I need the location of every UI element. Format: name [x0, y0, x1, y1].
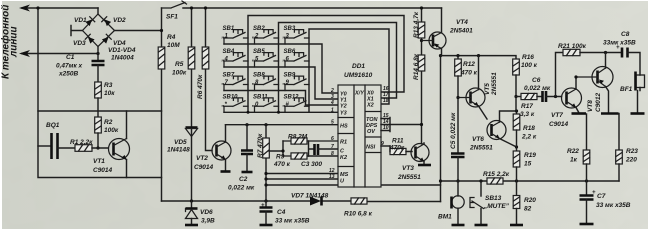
- wire: R13/R14 column: [421, 8, 423, 125]
- svg-text:X/Y: X/Y: [354, 91, 365, 97]
- svg-text:C9014: C9014: [93, 167, 113, 174]
- svg-text:C9014: C9014: [194, 164, 214, 171]
- resistor R5 100k: [188, 47, 195, 69]
- svg-text:15: 15: [524, 161, 532, 168]
- svg-text:10к: 10к: [104, 90, 115, 97]
- wire: column 2 bus to X1: [279, 23, 397, 113]
- wire: R5 column: [191, 8, 193, 201]
- svg-text:VD3: VD3: [73, 40, 86, 47]
- transistor VT3 2N5551: [397, 125, 431, 182]
- resistor R4 10M: [158, 47, 165, 69]
- resistor R7 470k: [265, 125, 267, 201]
- svg-text:18: 18: [383, 98, 389, 104]
- svg-text:VD5: VD5: [174, 139, 187, 146]
- button SB9: [285, 76, 309, 84]
- svg-text:R18: R18: [523, 125, 535, 132]
- wire: VT2 collector rail to IC pin5: [226, 124, 339, 126]
- svg-text:VT8: VT8: [587, 100, 594, 112]
- svg-text:SB2: SB2: [253, 26, 265, 32]
- switch SF1: [162, 1, 187, 8]
- resistor R9 470k: [283, 155, 309, 157]
- svg-text:R4: R4: [167, 34, 176, 41]
- svg-text:VD1-VD4: VD1-VD4: [108, 47, 136, 54]
- svg-text:6: 6: [331, 136, 334, 142]
- svg-text:VT2: VT2: [196, 155, 208, 162]
- svg-text:C7: C7: [597, 193, 606, 200]
- wire: TON/DPS/OV pins to VT3 collector line: [381, 118, 422, 132]
- svg-text:100к: 100к: [172, 70, 187, 77]
- resistor R6 470k: [202, 47, 209, 69]
- wire: lower link to VT4 emitter column: [266, 184, 441, 186]
- svg-text:VT4: VT4: [456, 19, 468, 26]
- svg-text:BQ1: BQ1: [46, 122, 60, 129]
- svg-text:2N5551: 2N5551: [469, 145, 493, 152]
- wire: left drop from top line (box left edge feed): [37, 8, 39, 111]
- wire: main left column SF1/R4 down to bottom bus: [161, 8, 163, 201]
- svg-text:R1: R1: [340, 140, 347, 146]
- wire: bottom bus: [162, 200, 311, 202]
- svg-text:R1 2,2к: R1 2,2к: [70, 139, 93, 146]
- wire: MS pin12 line: [266, 173, 338, 175]
- resistor R3 10k: [95, 82, 102, 98]
- button SB3: [285, 30, 309, 38]
- svg-text:VT5: VT5: [484, 83, 491, 95]
- svg-text:C6: C6: [532, 77, 541, 84]
- svg-text:R2: R2: [104, 119, 113, 126]
- wire: row 2 to pin Y1: [224, 67, 338, 99]
- svg-text:R11: R11: [392, 138, 404, 145]
- button SB1: [224, 30, 248, 38]
- svg-text:82: 82: [524, 206, 532, 213]
- zener VD6 3.9V: [191, 201, 193, 208]
- svg-text:VT7: VT7: [551, 112, 563, 119]
- resistor R14 6.8k: [418, 55, 425, 71]
- wire: VT4 emitter down-column: [441, 49, 442, 202]
- svg-text:„6: „6: [282, 57, 290, 63]
- capacitor C8 33uF 35V: [622, 48, 628, 58]
- speaker BF1: [620, 72, 645, 114]
- capacitor C1 0.47uF 250V: [92, 61, 105, 65]
- diode VD2: [102, 17, 112, 27]
- svg-text:„MUTE”: „MUTE”: [483, 203, 510, 210]
- switch SB13 MUTE: [470, 181, 510, 225]
- svg-text:„8: „8: [251, 80, 259, 86]
- svg-text:SB11: SB11: [253, 95, 268, 101]
- resistor R11 470k: [390, 148, 406, 154]
- wire: column 1 bus to X0: [248, 16, 404, 113]
- diode VD5 1N4148: [186, 126, 198, 129]
- wire: bridge top corner to top line: [97, 8, 99, 14]
- svg-text:„*: „*: [221, 102, 228, 108]
- svg-text:100 к: 100 к: [521, 62, 538, 69]
- svg-text:C8: C8: [621, 31, 630, 38]
- transistor VT7 C9014: [549, 77, 586, 128]
- svg-text:C9012: C9012: [595, 92, 602, 112]
- transistor VT6 2N5551: [469, 111, 517, 152]
- svg-text:R22: R22: [567, 148, 579, 155]
- svg-text:C1: C1: [66, 54, 75, 61]
- svg-text:R9: R9: [276, 154, 285, 161]
- wire: output rail BM1/R15: [441, 180, 620, 182]
- svg-text:10М: 10М: [167, 42, 180, 49]
- svg-text:„2: „2: [251, 34, 259, 40]
- wire: NSI pin to R11: [381, 145, 390, 147]
- capacitor C4 33uF 35V: [265, 201, 267, 207]
- transistor VT2 C9014: [194, 125, 231, 172]
- button SB4: [224, 53, 248, 61]
- svg-text:Y3: Y3: [340, 111, 347, 117]
- svg-text:2N5551: 2N5551: [397, 174, 421, 181]
- svg-text:„#: „#: [282, 102, 290, 108]
- diode VD3: [85, 34, 95, 44]
- svg-text:+: +: [261, 203, 265, 209]
- svg-text:VT1: VT1: [93, 158, 105, 165]
- svg-text:1: 1: [331, 108, 334, 114]
- svg-text:1N4004: 1N4004: [111, 55, 134, 62]
- transistor VT5 2N5551: [458, 56, 498, 119]
- microphone BM1: [438, 181, 465, 225]
- resistor R15 2.2k: [487, 178, 503, 184]
- svg-text:3,9В: 3,9В: [201, 218, 215, 225]
- svg-text:470 к: 470 к: [460, 70, 478, 77]
- svg-text:R7 470к: R7 470к: [257, 133, 264, 158]
- svg-text:„9: „9: [282, 80, 290, 86]
- ground VT3 emitter: [418, 164, 431, 167]
- svg-text:0,47мк х: 0,47мк х: [56, 63, 83, 70]
- svg-text:13: 13: [329, 174, 335, 180]
- svg-text:C9014: C9014: [549, 121, 569, 128]
- svg-text:SF1: SF1: [166, 14, 178, 21]
- svg-text:R17: R17: [521, 103, 533, 110]
- svg-text:SB9: SB9: [284, 73, 296, 79]
- svg-text:R10 6,8 к: R10 6,8 к: [344, 211, 373, 218]
- svg-text:7: 7: [331, 144, 334, 150]
- svg-text:SB7: SB7: [223, 73, 235, 79]
- svg-text:SB10: SB10: [223, 95, 239, 101]
- capacitor C6 0.022uF: [543, 91, 547, 102]
- svg-text:VT6: VT6: [472, 136, 484, 143]
- svg-text:R12: R12: [463, 61, 475, 68]
- node: column/row junctions: [247, 111, 250, 114]
- diode bridge VD1-VD4: [71, 8, 162, 62]
- svg-text:R15 2,2к: R15 2,2к: [483, 171, 510, 178]
- svg-text:+: +: [592, 190, 596, 196]
- svg-text:VD1: VD1: [74, 17, 87, 24]
- wire: bridge diamond: [83, 14, 115, 47]
- svg-text:R3: R3: [104, 82, 113, 89]
- svg-text:2N5551: 2N5551: [491, 72, 498, 96]
- wire: column 3 bus to X2: [309, 29, 389, 112]
- RC network R8/R9/C3: [269, 134, 338, 169]
- svg-text:R19: R19: [524, 152, 536, 159]
- svg-text:K2: K2: [340, 155, 347, 161]
- svg-text:33 мк х35В: 33 мк х35В: [596, 202, 631, 209]
- svg-text:0,022 мк: 0,022 мк: [524, 85, 551, 92]
- diode VD1: [85, 17, 95, 27]
- svg-text:R8 2М: R8 2М: [288, 134, 308, 141]
- svg-text:33 мк х35В: 33 мк х35В: [275, 218, 310, 225]
- op-amp U1: IC DD1 UM91510 dialer: [329, 63, 389, 187]
- resistor R1 2.2k: [75, 145, 92, 152]
- keypad matrix SB1-SB12: [221, 16, 405, 114]
- transistor VT8 C9012: [574, 53, 618, 114]
- wire: top rail from SF1 to VT4: [183, 7, 442, 9]
- svg-text:2N5401: 2N5401: [449, 28, 473, 35]
- svg-text:R21 100к: R21 100к: [558, 43, 587, 50]
- wire: top telephone line with arrow: [22, 7, 98, 9]
- svg-text:BM1: BM1: [438, 214, 452, 221]
- svg-text:SB1: SB1: [223, 26, 235, 32]
- button SB6: [285, 53, 309, 61]
- resistor R19 15: [516, 147, 518, 151]
- svg-text:линии: линии: [9, 26, 20, 58]
- button SB8: [255, 76, 279, 84]
- wire: row 3 to pin Y2: [224, 91, 338, 106]
- button SB2: [255, 30, 279, 38]
- capacitor C3 300: [309, 141, 315, 156]
- wire: U pin13 line: [266, 178, 338, 180]
- resistor R13 4.7k: [418, 22, 425, 38]
- svg-text:„1: „1: [221, 34, 229, 40]
- capacitor C7 33uF 35V: [586, 181, 588, 195]
- wire: R21 feedback branch: [556, 53, 564, 97]
- svg-text:HS: HS: [340, 124, 348, 130]
- svg-text:C4: C4: [277, 209, 286, 216]
- svg-text:R20: R20: [524, 197, 536, 204]
- resistor R10 6.8k: [351, 198, 367, 204]
- svg-text:3,3 к: 3,3 к: [520, 111, 535, 118]
- svg-text:470 к: 470 к: [273, 161, 291, 168]
- svg-text:VD7 1N4148: VD7 1N4148: [291, 193, 329, 200]
- resistor R17 3.3k: [516, 96, 521, 98]
- wire: emitter rail to R16: [441, 56, 517, 59]
- button SB12: [285, 98, 309, 106]
- svg-text:„0: „0: [251, 102, 259, 108]
- svg-text:C3 300: C3 300: [301, 161, 322, 168]
- button SB7: [224, 76, 248, 84]
- svg-text:SB5: SB5: [253, 49, 265, 55]
- wire: R6 column: [206, 8, 213, 151]
- transistor VT4 2N5401: [422, 8, 474, 49]
- svg-text:Y2: Y2: [340, 104, 347, 110]
- svg-text:0,022 мк: 0,022 мк: [228, 185, 255, 192]
- capacitor C5 0.022uF: [451, 154, 465, 158]
- svg-text:SB13: SB13: [485, 195, 502, 202]
- svg-text:C5 0,022 мк: C5 0,022 мк: [450, 112, 457, 149]
- svg-text:33мк х35В: 33мк х35В: [603, 40, 636, 47]
- svg-text:SB3: SB3: [284, 26, 296, 32]
- svg-text:„7: „7: [221, 80, 229, 86]
- resistor R16 100k: [513, 59, 520, 75]
- svg-text:470к: 470к: [389, 145, 405, 152]
- svg-text:DD1: DD1: [352, 63, 365, 70]
- svg-text:R13 4,7к: R13 4,7к: [413, 11, 420, 38]
- wire: bridge right corner to SF1 column: [115, 30, 162, 32]
- svg-text:„5: „5: [251, 57, 259, 63]
- svg-text:C2: C2: [239, 176, 248, 183]
- resistor R23 220: [618, 114, 621, 151]
- svg-text:2,2 к: 2,2 к: [521, 134, 537, 141]
- ground bar VT2 emitter: [221, 170, 231, 173]
- svg-text:VT3: VT3: [402, 165, 414, 172]
- svg-text:1к: 1к: [570, 157, 578, 164]
- wire: row 4 to pin Y3: [224, 111, 338, 113]
- resistor R8 2M: [283, 140, 338, 142]
- piezo BQ1: [38, 145, 51, 147]
- svg-text:х250В: х250В: [58, 71, 78, 78]
- svg-text:VD6: VD6: [200, 209, 213, 216]
- svg-text:4: 4: [330, 100, 334, 106]
- wire: left bar and stub: [269, 141, 283, 156]
- resistor R22 1k: [586, 114, 588, 150]
- svg-text:VD4: VD4: [113, 40, 126, 47]
- svg-text:1N4148: 1N4148: [167, 147, 190, 154]
- svg-text:SB6: SB6: [284, 49, 296, 55]
- transistor VT1 C9014: [93, 111, 130, 178]
- resistor R21 100k: [563, 49, 580, 55]
- svg-text:VD2: VD2: [113, 17, 126, 24]
- svg-text:BF1: BF1: [620, 86, 633, 93]
- svg-text:R16: R16: [522, 54, 534, 61]
- svg-text:SB8: SB8: [253, 73, 265, 79]
- svg-text:5: 5: [331, 120, 334, 126]
- svg-text:R6 470к: R6 470к: [197, 74, 204, 99]
- svg-text:R23: R23: [626, 148, 638, 155]
- diode VD7 1N4148: [310, 197, 321, 206]
- svg-text:SB12: SB12: [284, 95, 300, 101]
- capacitor C2 0.022uF: [246, 125, 248, 150]
- node: junction lower line to bridge bottom: [96, 52, 99, 55]
- button SB11: [255, 98, 279, 106]
- svg-text:R14 6,8к: R14 6,8к: [413, 53, 420, 80]
- wire: lower telephone line with arrow: [22, 53, 98, 55]
- wire: bridge left stub and terminal: [71, 26, 83, 36]
- svg-text:X2: X2: [366, 103, 374, 109]
- svg-text:R5: R5: [175, 61, 184, 68]
- svg-text:220: 220: [625, 157, 637, 164]
- svg-text:OV: OV: [367, 129, 376, 135]
- svg-text:„4: „4: [221, 57, 229, 63]
- button SB5: [255, 53, 279, 61]
- bottom bus with VD6/C4/VD7/R10: [162, 193, 441, 226]
- resistor R12 470k: [457, 56, 459, 67]
- svg-text:SB4: SB4: [223, 49, 235, 55]
- resistor R20 82: [516, 181, 518, 196]
- resistor R2 100k: [95, 117, 102, 133]
- svg-text:„3: „3: [282, 34, 290, 40]
- wire: bridge bottom to C1: [97, 47, 99, 62]
- svg-text:8: 8: [331, 151, 334, 157]
- wire: row 1 to pin Y0: [224, 44, 338, 93]
- resistor R18 2.2k: [516, 111, 518, 114]
- svg-text:MS: MS: [340, 172, 349, 178]
- button SB10: [224, 98, 248, 106]
- svg-text:UM91610: UM91610: [344, 72, 373, 79]
- diode VD4: [102, 34, 112, 44]
- wire: handset box outline: [38, 111, 162, 178]
- svg-text:NSI: NSI: [366, 145, 376, 151]
- svg-text:100к: 100к: [104, 127, 119, 134]
